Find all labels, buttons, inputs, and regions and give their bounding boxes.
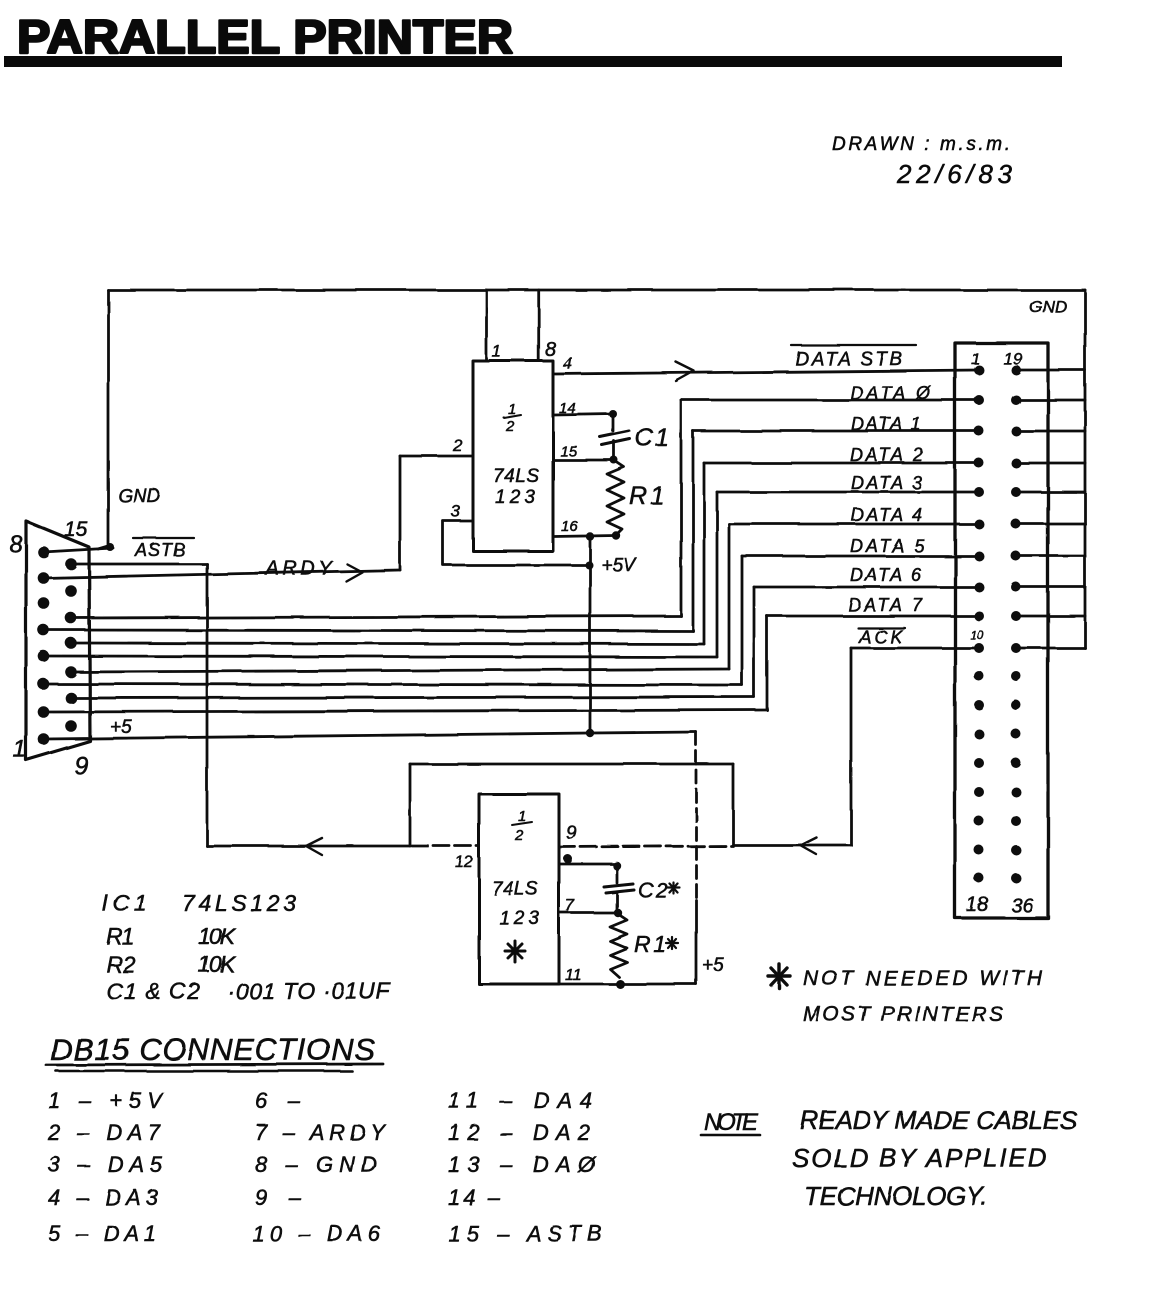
svg-text:4 – DA3: 4 – DA3	[48, 1185, 159, 1210]
wire +5 solid vertical lower	[695, 900, 698, 984]
svg-text:74LS: 74LS	[492, 879, 538, 900]
svg-text:DATA 6: DATA 6	[850, 565, 922, 585]
svg-text:C1 & C2: C1 & C2	[106, 978, 200, 1004]
svg-text:GND: GND	[118, 486, 161, 507]
wire ARDY from DB15 pin7	[43, 570, 400, 578]
wire +5V vertical	[589, 537, 592, 734]
wire dashed pin9 out	[559, 846, 733, 847]
wire GND stub pin24	[1016, 523, 1085, 526]
wire DA3 from DB15 pin4	[43, 656, 717, 657]
wire GND stub pin25	[1016, 555, 1085, 558]
wire DATA5 to pin 7	[742, 555, 979, 558]
connector J2 pins right column	[1011, 365, 1021, 883]
wire DATA0 riser	[680, 400, 683, 616]
node GND junction at DB15 pin 8	[106, 543, 114, 551]
svg-text:ARDY: ARDY	[265, 558, 334, 580]
label ASTB overline	[133, 537, 194, 539]
node R1 bottom junction	[612, 531, 620, 539]
wire DATA6 to pin 8	[754, 586, 979, 589]
svg-text:74LS: 74LS	[493, 466, 539, 487]
svg-text:R1: R1	[634, 931, 666, 957]
wire DA5 from DB15 pin3	[43, 684, 742, 685]
svg-text:4: 4	[563, 354, 572, 373]
svg-text:IC1: IC1	[102, 890, 147, 916]
node IC1b pin13 dot	[564, 855, 573, 864]
svg-text:5 – DA1: 5 – DA1	[48, 1221, 156, 1246]
svg-text:NOT NEEDED WITH: NOT NEEDED WITH	[803, 967, 1043, 990]
svg-text:DATA 4: DATA 4	[851, 505, 922, 525]
svg-text:PARALLEL PRINTER: PARALLEL PRINTER	[17, 10, 513, 63]
svg-text:1: 1	[13, 736, 26, 763]
svg-text:DATA 7: DATA 7	[848, 595, 923, 615]
wire DATA7 riser	[766, 616, 769, 710]
svg-text:18: 18	[966, 894, 988, 916]
svg-text:ASTB: ASTB	[134, 540, 185, 560]
connector J1 DB15 trapezoid	[26, 521, 90, 760]
wire DA7 from DB15 pin2	[43, 710, 767, 712]
wire IC1a pin8 to frame	[537, 290, 540, 361]
svg-text:15: 15	[64, 518, 88, 541]
svg-text:DRAWN : m.s.m.: DRAWN : m.s.m.	[832, 134, 1010, 155]
wire IC1b to C2	[559, 863, 617, 866]
resistor R1	[607, 461, 624, 535]
wire GND stub pin21	[1016, 430, 1085, 433]
note asterisk big	[768, 964, 790, 988]
svg-text:DATA STB: DATA STB	[795, 349, 902, 370]
svg-text:2 – DA7: 2 – DA7	[47, 1120, 161, 1145]
svg-text:16: 16	[561, 518, 578, 535]
op IC1a 74LS123 rectangle	[473, 361, 553, 551]
svg-text:9: 9	[74, 752, 88, 780]
svg-text:11: 11	[565, 967, 582, 984]
svg-text:13 – DAØ: 13 – DAØ	[448, 1152, 597, 1177]
wire ACK to pin 10	[851, 647, 979, 650]
wire DATA0 to pin 2	[681, 399, 979, 402]
wire IC1a pin16	[553, 536, 616, 537]
svg-text:READY MADE CABLES: READY MADE CABLES	[800, 1105, 1078, 1135]
wire DA0 from DB15 pin13	[71, 616, 681, 618]
wire DATA2 riser	[703, 463, 706, 644]
svg-text:1: 1	[492, 342, 501, 361]
svg-text:10: 10	[970, 628, 984, 642]
table DB15 connections column 3	[448, 1088, 602, 1246]
resistor R2 (R1*)	[610, 914, 627, 977]
wire DATA4 riser	[728, 524, 731, 669]
wire GND frame left vertical	[98, 290, 108, 549]
connector J2 36-pin rectangle	[955, 343, 1048, 918]
svg-text:10K: 10K	[198, 923, 237, 949]
DB15 pins right column	[65, 558, 77, 732]
wire DATA7 to pin 9	[767, 615, 979, 618]
svg-text:C1: C1	[635, 424, 669, 452]
svg-text:12 – DA2: 12 – DA2	[448, 1120, 590, 1145]
table DB15 connections column 2	[252, 1088, 386, 1246]
wire DATA3 riser	[716, 492, 719, 657]
wire IC1a pin14	[553, 414, 613, 415]
svg-text:GND: GND	[1029, 297, 1067, 316]
svg-text:DATA 1: DATA 1	[851, 414, 921, 434]
svg-text:10 – DA6: 10 – DA6	[252, 1221, 381, 1246]
wire IC1a pin15	[553, 459, 614, 462]
wire DATA2 to pin 4	[704, 462, 979, 465]
node C2 top junction	[613, 862, 621, 870]
wire ACK vertical	[850, 648, 853, 845]
wire DA4 from DB15 pin11	[71, 669, 729, 672]
svg-text:2: 2	[505, 418, 515, 435]
svg-text:123: 123	[495, 487, 535, 508]
parts list IC1 74LS123	[102, 890, 392, 1004]
svg-text:+5: +5	[110, 717, 132, 738]
wire IC1b pin11 bottom	[559, 983, 696, 986]
label R2 asterisk	[666, 937, 678, 949]
svg-text:7 – ARDY: 7 – ARDY	[255, 1120, 386, 1145]
svg-text:3: 3	[451, 502, 461, 521]
arrow trigger left	[306, 838, 322, 855]
wire DA6 from DB15 pin10	[71, 697, 754, 698]
svg-text:9: 9	[566, 823, 577, 844]
svg-text:10K: 10K	[198, 951, 237, 977]
wire DATA4 to pin 6	[729, 523, 979, 526]
node R1 top junction	[610, 456, 618, 464]
node pin3 +5V junction	[585, 561, 593, 569]
svg-text:7: 7	[565, 896, 575, 915]
wire IC1a pin2	[400, 455, 473, 458]
wire GND stub pin22	[1016, 462, 1085, 465]
svg-text:36: 36	[1011, 895, 1034, 917]
wire GND stub pin26	[1016, 586, 1085, 589]
svg-text:+5V: +5V	[601, 555, 638, 576]
svg-text:R1: R1	[629, 482, 664, 510]
svg-text:8 – GND: 8 – GND	[255, 1152, 377, 1177]
wire GND stub pin28	[1016, 647, 1085, 650]
svg-text:6 –: 6 –	[255, 1088, 301, 1113]
wire DATA1 to pin 3	[693, 430, 979, 433]
svg-text:9 –: 9 –	[255, 1185, 302, 1210]
svg-text:123: 123	[499, 908, 539, 929]
svg-text:SOLD BY APPLIED: SOLD BY APPLIED	[792, 1143, 1047, 1173]
svg-text:NOTE: NOTE	[704, 1109, 759, 1136]
svg-text:11 – DA4: 11 – DA4	[448, 1088, 592, 1113]
svg-text:8: 8	[545, 339, 556, 361]
wire DATA5 riser	[741, 556, 744, 685]
svg-text:8: 8	[9, 531, 23, 558]
svg-text:DATA 3: DATA 3	[851, 473, 922, 493]
wire loop up left	[409, 764, 412, 846]
table DB15 connections column 1	[47, 1088, 164, 1246]
svg-text:+5: +5	[702, 955, 724, 976]
svg-text:DATA 5: DATA 5	[850, 536, 925, 556]
capacitor C2	[604, 866, 634, 913]
wire IC1a pin3	[443, 521, 589, 565]
wire DATA STB to connector pin 1	[553, 370, 979, 374]
svg-text:TECHNOLOGY.: TECHNOLOGY.	[804, 1181, 988, 1211]
wire DA1 from DB15 pin5	[43, 630, 693, 631]
title PARALLEL PRINTER	[4, 10, 1062, 67]
svg-text:22/6/83: 22/6/83	[896, 159, 1013, 189]
wire +5 dashed vertical	[695, 732, 698, 900]
wire GND stub pin19	[1016, 369, 1085, 372]
wire GND stub pin27	[1016, 615, 1085, 618]
node R2 bottom junction	[616, 980, 625, 989]
label IC1b asterisk	[505, 941, 525, 962]
wire dashed trigger into pin12	[412, 845, 479, 848]
svg-text:15 – ASTB: 15 – ASTB	[448, 1221, 602, 1246]
svg-text:2: 2	[514, 827, 524, 844]
wire DA2 from DB15 pin12	[71, 643, 704, 644]
svg-text:12: 12	[455, 854, 473, 871]
wire GND bus right vertical	[1084, 290, 1087, 648]
note DRAWN : m.s.m. 22/6/83	[832, 134, 1013, 189]
arrow loop left	[800, 837, 816, 854]
wire GND stub pin20	[1016, 399, 1085, 402]
capacitor C1	[600, 414, 630, 460]
svg-text:ACK: ACK	[858, 627, 903, 647]
svg-text:DB15 CONNECTIONS: DB15 CONNECTIONS	[50, 1032, 375, 1067]
wire loop to ACK	[733, 844, 851, 847]
svg-text:14 –: 14 –	[448, 1185, 501, 1210]
wire IC1b pin7	[559, 912, 617, 915]
label C2 asterisk	[667, 882, 679, 893]
svg-text:DATA 2: DATA 2	[850, 445, 923, 465]
wire loop down right	[732, 764, 735, 845]
label IC1b 1/2	[514, 808, 526, 844]
DB15 pins left column	[38, 546, 50, 745]
wire GND stub pin23	[1016, 491, 1085, 494]
label DATA STB overline	[791, 344, 916, 346]
svg-text:3 – DA5: 3 – DA5	[48, 1152, 163, 1177]
wire trigger horizontal (ASTB to loop)	[207, 845, 410, 848]
connector J2 pins left column	[974, 365, 984, 883]
svg-text:R2: R2	[106, 951, 135, 977]
node +5 junction	[586, 729, 594, 737]
wire DATA1 riser	[692, 431, 695, 631]
node pin16 +5V junction	[586, 532, 594, 540]
op IC1b 74LS123 rectangle	[479, 794, 559, 984]
node C1 top junction	[609, 410, 617, 418]
wire DB15 pin8 GND to frame	[43, 548, 113, 552]
svg-text:14: 14	[559, 400, 576, 417]
wire ASTB from DB15 pin15	[71, 563, 207, 566]
label ACK overline	[858, 627, 905, 629]
wire loop top	[410, 763, 733, 766]
wire +5 from DB15 pin1	[44, 732, 696, 739]
label IC1a 1/2	[505, 401, 516, 435]
wire ASTB vertical	[206, 564, 209, 846]
svg-text:R1: R1	[106, 923, 134, 949]
arrow DATA STB	[676, 362, 694, 381]
wire DATA3 to pin 5	[717, 491, 979, 494]
svg-text:15: 15	[560, 443, 577, 460]
svg-text:C2: C2	[638, 879, 667, 902]
svg-text:74LS123: 74LS123	[182, 890, 296, 916]
svg-text:2: 2	[452, 436, 463, 455]
svg-text:MOST PRINTERS: MOST PRINTERS	[803, 1003, 1003, 1026]
svg-text:·001 TO ·01UF: ·001 TO ·01UF	[227, 978, 392, 1004]
arrow ARDY	[346, 564, 362, 581]
wire ARDY vertical riser	[399, 456, 402, 570]
wire IC1a pin1 to frame	[485, 290, 488, 361]
svg-text:1 – +5V: 1 – +5V	[48, 1088, 164, 1113]
wire DATA6 riser	[753, 587, 756, 697]
svg-text:19: 19	[1003, 349, 1022, 368]
node R2 top junction	[614, 909, 622, 917]
wire GND frame top	[108, 289, 1085, 292]
